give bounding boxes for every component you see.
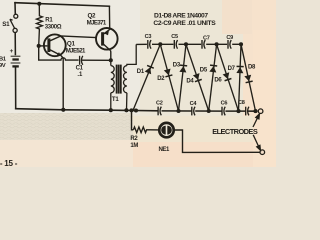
dot node t2 <box>184 42 188 46</box>
capacitor C3 <box>148 40 151 49</box>
svg-text:C9: C9 <box>226 35 233 41</box>
capacitor C6 <box>222 107 225 116</box>
dot node n2 <box>207 109 211 113</box>
svg-text:D8: D8 <box>248 65 256 71</box>
transformer T1 secondary winding <box>124 44 137 110</box>
svg-text:Q1: Q1 <box>67 41 76 48</box>
wire node A down and right to C1 <box>39 46 79 60</box>
dot R1 tap on top rail <box>37 2 41 6</box>
switch S1 <box>10 14 18 32</box>
dot node t3 <box>215 42 219 46</box>
dot secondary bottom on rail <box>124 108 128 112</box>
svg-text:C6: C6 <box>221 101 228 107</box>
neon lamp NE1 <box>159 123 173 137</box>
wire Q2 collector up to top rail corner <box>108 6 111 29</box>
dot node n1 <box>176 109 180 113</box>
wire left drop to switch <box>14 3 16 14</box>
diode D7 <box>236 44 243 111</box>
svg-text:MJE521: MJE521 <box>66 48 86 55</box>
wire Q1 collector to Q2 base <box>60 36 96 38</box>
svg-text:C5: C5 <box>171 34 178 40</box>
svg-text:3300Ω: 3300Ω <box>45 25 62 31</box>
svg-text:MJE371: MJE371 <box>87 19 107 26</box>
capacitor C1 <box>80 56 111 65</box>
diode D6 <box>217 44 239 111</box>
svg-text:D7: D7 <box>228 66 236 72</box>
capacitor C4 <box>192 107 195 116</box>
capacitor C2 <box>158 107 161 116</box>
pointer line to top terminal <box>253 114 259 127</box>
svg-text:R1: R1 <box>45 18 53 24</box>
svg-text:.1: .1 <box>77 72 83 78</box>
battery B1 <box>11 56 21 66</box>
svg-text:D4: D4 <box>186 78 194 84</box>
capacitor C8 <box>246 107 249 116</box>
dot node n4 <box>253 109 257 113</box>
terminal output top <box>258 109 263 114</box>
capacitor C5 <box>174 40 177 49</box>
dot node n3 <box>236 109 240 113</box>
svg-text:NE1: NE1 <box>159 147 171 153</box>
wire bottom rail segment 2 <box>162 110 191 112</box>
capacitor C7 <box>202 40 205 49</box>
pointer line to bottom terminal <box>253 135 260 150</box>
wire bottom rail segment 3 <box>196 110 221 112</box>
diode D4 <box>186 44 209 111</box>
wire Q2 emitter down to C1 node <box>110 51 112 61</box>
svg-text:D5: D5 <box>200 68 208 74</box>
wire battery to bottom rail <box>15 68 17 109</box>
svg-text:D2: D2 <box>157 76 165 82</box>
wire switch to battery <box>14 33 16 55</box>
dot node n0b D1 start <box>134 108 138 112</box>
dot node t4 <box>239 42 243 46</box>
dot node t1 <box>158 42 162 46</box>
svg-text:D1: D1 <box>137 69 145 75</box>
svg-text:D1-D8 ARE 1N4007: D1-D8 ARE 1N4007 <box>154 12 208 19</box>
node A dot (R1 / Q1 base / C1) <box>37 44 41 48</box>
transistor Q2 MJE371 <box>96 28 118 51</box>
svg-text:D3: D3 <box>173 62 181 68</box>
wire R2 branch drop <box>132 110 134 129</box>
svg-text:S1: S1 <box>2 21 10 28</box>
svg-text:C3: C3 <box>145 34 152 40</box>
svg-text:C2-C9 ARE .01 UNITS: C2-C9 ARE .01 UNITS <box>153 20 216 27</box>
terminal output bottom <box>260 150 265 155</box>
svg-text:ELECTRODES: ELECTRODES <box>212 127 258 136</box>
resistor R1 <box>37 4 43 46</box>
dot node n0a secondary <box>129 108 133 112</box>
dot primary bottom on rail <box>109 108 113 112</box>
wire bottom rail segment 5 <box>248 110 256 112</box>
capacitor C9 <box>228 40 231 49</box>
dot Q1 emitter on bottom rail <box>61 108 65 112</box>
resistor R2 <box>133 127 158 133</box>
diode D1 <box>133 44 160 110</box>
svg-text:T1: T1 <box>112 96 119 103</box>
svg-text:+: + <box>10 48 14 55</box>
wire Q1 emitter down to bottom rail <box>61 56 63 110</box>
svg-text:C7: C7 <box>203 35 210 41</box>
background paper <box>0 0 276 167</box>
svg-text:R2: R2 <box>130 136 138 142</box>
wire bottom rail segment 4 <box>226 110 245 112</box>
wire top rail <box>15 3 109 6</box>
diode D2 <box>160 44 178 111</box>
wire ladder top rail <box>136 43 241 45</box>
svg-text:C1: C1 <box>76 66 84 72</box>
diode D3 <box>179 44 188 111</box>
wire node A to Q1 base <box>39 45 48 47</box>
dot C1 / Q2 emitter / primary node <box>109 58 113 62</box>
diode D8 <box>241 44 256 111</box>
transistor Q1 MJE521 <box>44 34 66 56</box>
diode D5 <box>209 44 217 111</box>
svg-text:1M: 1M <box>130 143 138 149</box>
transformer T1 primary winding <box>111 60 114 110</box>
svg-text:B1: B1 <box>0 57 7 63</box>
wire NE1 to lower rail <box>175 130 260 152</box>
svg-text:C2: C2 <box>156 101 163 107</box>
svg-text:- 15 -: - 15 - <box>0 159 18 167</box>
transformer T1 core <box>117 65 121 94</box>
svg-text:D6: D6 <box>214 78 222 84</box>
svg-text:9V: 9V <box>0 63 6 69</box>
wire bottom rail <box>16 109 157 111</box>
